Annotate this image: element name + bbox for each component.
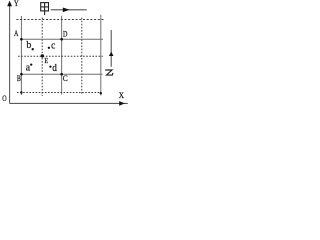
node A (corner dot) <box>20 38 23 41</box>
node C (corner dot) <box>60 73 63 76</box>
svg-text:E: E <box>44 56 48 65</box>
svg-text:O: O <box>2 93 6 103</box>
grid vertical dashed V4 <box>81 18 83 95</box>
svg-text:a: a <box>26 62 31 73</box>
background <box>0 0 128 107</box>
svg-text:d: d <box>52 63 57 74</box>
dashed horizontal H5 (bottom line) <box>17 92 101 94</box>
yi (CJK) glyph drawn as strokes <box>105 70 113 75</box>
node E (center dot) <box>41 54 44 57</box>
solid horizontal H4 (bottom edge) <box>21 73 102 75</box>
particle jia (CJK) glyph drawn as strokes <box>41 3 49 16</box>
svg-text:c: c <box>51 41 55 52</box>
Y axis arrowhead <box>7 1 12 7</box>
X axis arrowhead <box>119 101 125 106</box>
X axis <box>10 102 128 104</box>
svg-text:C: C <box>63 74 68 83</box>
dashed horizontal H3 (middle) <box>18 55 103 57</box>
svg-text:b: b <box>26 40 31 51</box>
Y axis <box>9 3 11 103</box>
jia velocity arrowhead (right) <box>63 8 70 13</box>
yi velocity arrowhead (up) <box>109 52 114 56</box>
grid vertical dashed V2 <box>41 18 43 96</box>
yi velocity line <box>110 30 112 67</box>
svg-text:B: B <box>17 74 21 83</box>
svg-text:X: X <box>119 90 125 100</box>
svg-text:A: A <box>14 29 18 38</box>
dashed horizontal H1 (jia entry line) <box>16 19 103 21</box>
grid vertical solid V1 (left edge) <box>20 16 22 95</box>
jia velocity line <box>51 9 87 11</box>
svg-text:D: D <box>63 30 67 39</box>
point a dot <box>30 63 32 65</box>
node B (corner dot) <box>20 73 23 76</box>
point b dot <box>32 48 34 50</box>
node D (corner dot) <box>60 38 63 41</box>
point d dot <box>49 65 51 67</box>
grid vertical solid V3 (middle) <box>61 16 63 95</box>
point c dot <box>48 47 50 49</box>
grid vertical solid V5 (right edge) <box>100 15 102 96</box>
svg-text:Y: Y <box>14 0 19 8</box>
solid horizontal H2 (top edge) <box>21 38 103 40</box>
junction dot bottom-left cross <box>20 91 22 93</box>
junction dot right edge bottom <box>100 92 102 94</box>
